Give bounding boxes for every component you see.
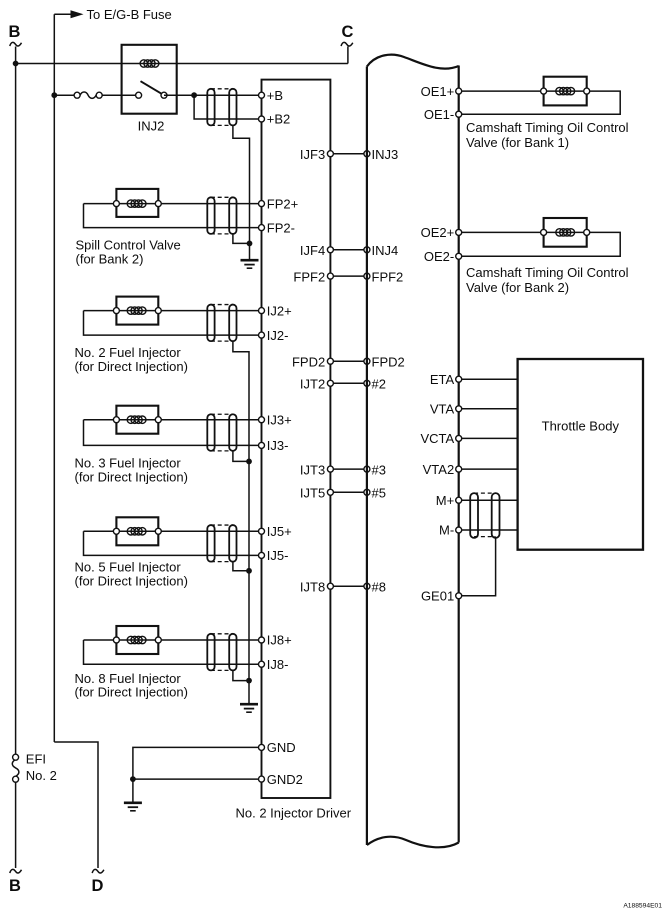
connector C — [341, 23, 353, 64]
svg-text:Camshaft Timing Oil Control: Camshaft Timing Oil Control — [466, 265, 629, 280]
svg-text:EFI: EFI — [26, 752, 46, 767]
terminal FP2- — [259, 220, 295, 235]
svg-text:To E/G-B Fuse: To E/G-B Fuse — [87, 7, 172, 22]
svg-text:IJ8+: IJ8+ — [267, 633, 292, 648]
terminal VCTA — [420, 431, 461, 446]
wire GND — [133, 747, 262, 779]
svg-text:IJ5-: IJ5- — [267, 548, 289, 563]
svg-text:GND: GND — [267, 740, 296, 755]
svg-text:IJF4: IJF4 — [300, 243, 325, 258]
svg-text:Throttle Body: Throttle Body — [542, 419, 620, 434]
wire VTA2 — [459, 468, 518, 470]
node GND junction — [130, 776, 136, 782]
wire branch to +B2 — [194, 95, 261, 119]
wire FPF2-FPF2 — [293, 269, 403, 284]
svg-text:IJ8-: IJ8- — [267, 657, 289, 672]
wire VCTA — [459, 437, 518, 439]
fuse EFI No. 2 — [12, 752, 57, 783]
wire IJT3-#3 — [300, 462, 386, 477]
svg-text:IJ3+: IJ3+ — [267, 412, 292, 427]
svg-text:C: C — [342, 23, 354, 41]
wire VTA — [459, 408, 518, 410]
svg-text:FP2-: FP2- — [267, 220, 295, 235]
terminal IJ3- — [259, 438, 289, 453]
no. 5 fuel injector wires — [84, 531, 262, 555]
wire IJT2-#2 — [300, 377, 386, 392]
ground (shield, lower) — [240, 704, 258, 712]
wire M+ — [459, 499, 518, 501]
no. 8 fuel injector — [75, 626, 188, 700]
wire IJT8-#8 — [300, 579, 386, 594]
svg-text:GND2: GND2 — [267, 772, 303, 787]
wire OE1+ loop — [459, 91, 621, 114]
svg-text:Camshaft Timing Oil Control: Camshaft Timing Oil Control — [466, 120, 629, 135]
spill control valve — [76, 189, 181, 266]
wire shield drain IJ3 — [233, 451, 249, 462]
svg-text:IJ5+: IJ5+ — [267, 524, 292, 539]
svg-text:(for Direct Injection): (for Direct Injection) — [75, 469, 188, 484]
terminal IJ5+ — [259, 524, 292, 539]
svg-text:B: B — [9, 877, 21, 895]
svg-text:IJT8: IJT8 — [300, 579, 325, 594]
terminal VTA2 — [423, 462, 462, 477]
svg-text:M-: M- — [439, 523, 454, 538]
wire feed to fuse — [54, 94, 77, 96]
svg-text:IJ2+: IJ2+ — [267, 303, 292, 318]
no. 3 fuel injector wires — [84, 420, 262, 446]
svg-text:(for Bank 2): (for Bank 2) — [76, 251, 144, 266]
svg-text:No. 3 Fuel Injector: No. 3 Fuel Injector — [75, 456, 182, 471]
svg-text:M+: M+ — [436, 493, 454, 508]
svg-text:IJF3: IJF3 — [300, 147, 325, 162]
terminal GND2 — [259, 772, 303, 787]
terminal M+ — [436, 493, 462, 508]
wire IJF3-INJ3 — [300, 147, 398, 162]
svg-text:B: B — [9, 23, 21, 41]
ground (GND) — [124, 803, 142, 811]
svg-text:ETA: ETA — [430, 372, 455, 387]
wire M- — [459, 529, 518, 531]
svg-text:Valve (for Bank 2): Valve (for Bank 2) — [466, 280, 569, 295]
wire shield drain IJ8 — [233, 670, 249, 680]
svg-text:IJT2: IJT2 — [300, 377, 325, 392]
throttle body box — [518, 359, 643, 550]
svg-text:OE2+: OE2+ — [421, 225, 455, 240]
terminal OE1+ — [421, 84, 462, 99]
terminal IJ3+ — [259, 412, 292, 427]
svg-text:Valve (for Bank 1): Valve (for Bank 1) — [466, 135, 569, 150]
wire shield drain IJ5 — [233, 562, 249, 571]
svg-text:Spill Control Valve: Spill Control Valve — [76, 237, 181, 252]
no. 2 fuel injector — [75, 297, 188, 374]
svg-text:IJ2-: IJ2- — [267, 328, 289, 343]
node drain junction IJ8 — [246, 678, 252, 684]
ECM band (ECM) — [367, 55, 459, 848]
svg-text:No. 2: No. 2 — [26, 768, 57, 783]
svg-text:INJ3: INJ3 — [372, 147, 399, 162]
svg-text:IJT3: IJT3 — [300, 462, 325, 477]
svg-text:#5: #5 — [372, 486, 386, 501]
wire E/G-B fuse feed vertical — [53, 14, 55, 742]
svg-text:FP2+: FP2+ — [267, 196, 298, 211]
wire shield drain IJ2 — [233, 341, 249, 703]
svg-text:D: D — [92, 877, 104, 895]
svg-text:(for Direct Injection): (for Direct Injection) — [75, 573, 188, 588]
spill control valve wires — [84, 204, 262, 228]
svg-text:No. 5 Fuel Injector: No. 5 Fuel Injector — [75, 560, 182, 575]
svg-text:OE1+: OE1+ — [421, 84, 455, 99]
shielded pair IJ5 — [207, 525, 236, 562]
no. 3 fuel injector — [75, 406, 188, 485]
svg-text:FPD2: FPD2 — [292, 354, 325, 369]
terminal IJ8- — [259, 657, 289, 672]
svg-text:VTA: VTA — [430, 402, 455, 417]
svg-text:IJT5: IJT5 — [300, 486, 325, 501]
svg-text:No. 2 Injector Driver: No. 2 Injector Driver — [236, 805, 352, 820]
wire B to C (top horizontal) — [16, 63, 348, 65]
fuse (main relay feed) — [74, 92, 102, 98]
svg-text:#3: #3 — [372, 462, 386, 477]
wire IJT5-#5 — [300, 486, 386, 501]
camshaft timing oil control valve bank 1 — [466, 77, 629, 150]
svg-text:#8: #8 — [372, 579, 386, 594]
no. 8 fuel injector wires — [84, 640, 262, 664]
wire B bus upper segment — [15, 47, 17, 755]
node drain junction IJ5 — [246, 568, 252, 574]
terminal OE1- — [424, 107, 462, 122]
wire GND down — [132, 779, 134, 802]
terminal IJ2+ — [259, 303, 292, 318]
terminal OE2+ — [421, 225, 462, 240]
terminal VTA — [430, 402, 462, 417]
svg-text:IJ3-: IJ3- — [267, 438, 289, 453]
connector B (bottom) — [9, 869, 21, 895]
svg-text:No. 8 Fuel Injector: No. 8 Fuel Injector — [75, 671, 182, 686]
svg-text:+B2: +B2 — [267, 112, 291, 127]
no. 2 injector driver box U1 — [236, 80, 352, 821]
ground (shield, upper) — [241, 260, 259, 268]
connector D (bottom) — [92, 869, 104, 895]
camshaft timing oil control valve bank 2 — [466, 218, 629, 295]
svg-text:GE01: GE01 — [421, 589, 454, 604]
shielded pair IJ8 — [207, 634, 236, 671]
svg-text:(for Direct Injection): (for Direct Injection) — [75, 685, 188, 700]
connector B (top) — [9, 23, 22, 46]
wire OE2+ loop — [459, 232, 621, 256]
svg-text:FPD2: FPD2 — [372, 354, 405, 369]
terminal GE01 — [421, 589, 462, 604]
wire IJF4-INJ4 — [300, 243, 398, 258]
terminal IJ8+ — [259, 633, 292, 648]
wire fuse to relay contact — [102, 94, 138, 96]
node +B branch — [191, 92, 197, 98]
wire B bus lower segment — [15, 782, 17, 868]
terminal IJ5- — [259, 548, 289, 563]
svg-text:INJ4: INJ4 — [372, 243, 399, 258]
svg-text:OE1-: OE1- — [424, 107, 454, 122]
terminal OE2- — [424, 249, 462, 264]
svg-text:FPF2: FPF2 — [293, 269, 325, 284]
wire shield drain M to GE01 — [459, 538, 496, 596]
relay INJ2 — [122, 45, 177, 134]
shielded pair M — [470, 493, 499, 538]
svg-text:INJ2: INJ2 — [138, 118, 165, 133]
node B top junction — [13, 61, 19, 67]
svg-text:VCTA: VCTA — [420, 431, 454, 446]
svg-text:FPF2: FPF2 — [372, 269, 404, 284]
terminal +B2 — [259, 112, 291, 127]
node relay switch feed — [51, 92, 57, 98]
wire shield drain FP2 — [233, 234, 250, 244]
terminal M- — [439, 523, 462, 538]
node drain junction IJ3 — [246, 459, 252, 465]
terminal +B — [259, 88, 284, 103]
svg-text:VTA2: VTA2 — [423, 462, 455, 477]
svg-text:#2: #2 — [372, 377, 386, 392]
wire relay to +B — [164, 94, 262, 96]
wire shield drain +B pair — [233, 125, 250, 259]
wire GND2 — [133, 778, 262, 780]
no. 5 fuel injector — [75, 517, 188, 588]
arrow To E/G-B Fuse — [54, 7, 171, 22]
svg-text:(for Direct Injection): (for Direct Injection) — [75, 359, 188, 374]
terminal ETA — [430, 372, 462, 387]
wire FPD2-FPD2 — [292, 354, 405, 369]
wire ETA — [459, 378, 518, 380]
shielded pair FP2 — [207, 197, 236, 234]
no. 2 fuel injector wires — [84, 311, 262, 336]
svg-text:No. 2 Fuel Injector: No. 2 Fuel Injector — [75, 345, 182, 360]
svg-text:A188594E01: A188594E01 — [623, 903, 662, 910]
shielded pair IJ3 — [207, 414, 236, 451]
svg-text:OE2-: OE2- — [424, 249, 454, 264]
svg-text:+B: +B — [267, 88, 283, 103]
wire jog to D — [54, 742, 98, 868]
shielded pair IJ2 — [207, 305, 236, 342]
node shield ground junction — [247, 241, 253, 247]
terminal FP2+ — [259, 196, 299, 211]
shielded pair +B/+B2 — [207, 89, 236, 126]
terminal IJ2- — [259, 328, 289, 343]
terminal GND — [259, 740, 296, 755]
